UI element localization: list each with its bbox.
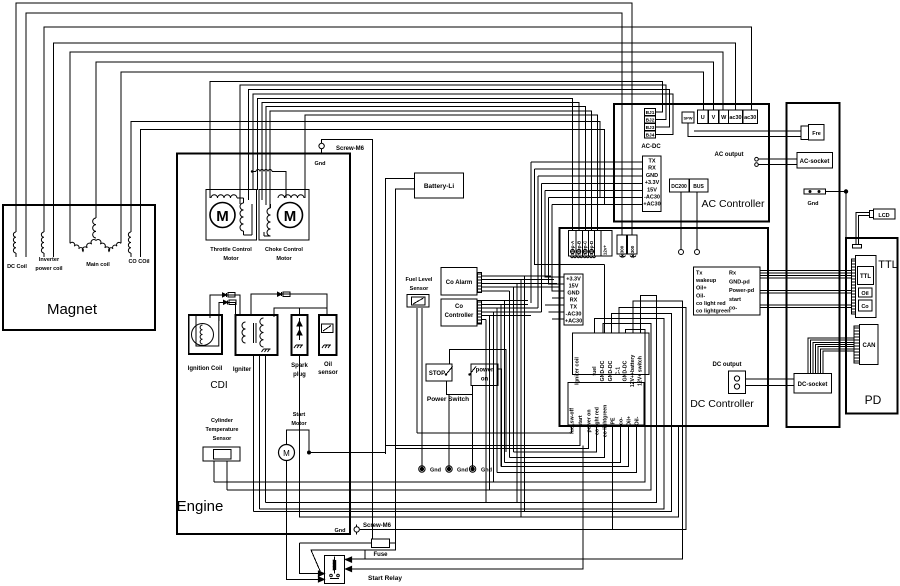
svg-text:GND-DC: GND-DC	[600, 360, 606, 381]
svg-text:Controller: Controller	[445, 313, 474, 319]
svg-text:co-: co-	[729, 306, 737, 312]
svg-text:TTL: TTL	[860, 274, 871, 280]
svg-text:DC200: DC200	[671, 184, 687, 190]
svg-text:Tx: Tx	[696, 271, 703, 277]
svg-text:co lightgreen: co lightgreen	[603, 405, 609, 438]
svg-text:Power Switch: Power Switch	[427, 396, 469, 403]
svg-text:start: start	[578, 415, 584, 427]
svg-text:Rx: Rx	[729, 271, 737, 277]
svg-text:+AC30: +AC30	[643, 202, 660, 208]
svg-text:DC Coil: DC Coil	[7, 264, 27, 270]
svg-text:12V+ switch: 12V+ switch	[638, 356, 644, 386]
svg-text:plug: plug	[293, 372, 306, 378]
svg-text:M: M	[283, 449, 290, 458]
svg-text:power coil: power coil	[35, 266, 63, 272]
svg-text:15V: 15V	[647, 187, 657, 193]
svg-text:Gnd: Gnd	[315, 161, 326, 167]
svg-text:BJ1: BJ1	[646, 110, 655, 116]
svg-text:Choke Control: Choke Control	[265, 247, 303, 253]
svg-text:Gnd: Gnd	[808, 201, 819, 207]
svg-text:AC-socket: AC-socket	[800, 159, 830, 165]
svg-text:Sensor: Sensor	[213, 436, 233, 442]
svg-text:start: start	[729, 297, 741, 303]
svg-text:W: W	[721, 115, 727, 121]
svg-text:Oil+: Oil+	[627, 416, 633, 426]
svg-text:wakeup: wakeup	[695, 278, 717, 284]
svg-text:Screw-M6: Screw-M6	[336, 146, 365, 152]
svg-text:+3.3V: +3.3V	[566, 277, 581, 283]
svg-text:V: V	[712, 115, 716, 121]
svg-text:-AC30: -AC30	[566, 312, 582, 318]
svg-text:BUS: BUS	[693, 184, 704, 190]
svg-text:co lightgreen: co lightgreen	[696, 309, 731, 315]
svg-text:on: on	[481, 377, 489, 383]
svg-text:Gnd: Gnd	[430, 468, 441, 474]
svg-text:Screw-M6: Screw-M6	[363, 523, 392, 529]
svg-text:Gnd: Gnd	[335, 528, 346, 534]
svg-text:Gnd: Gnd	[457, 468, 468, 474]
svg-text:TTL: TTL	[878, 259, 898, 271]
svg-text:Motor: Motor	[276, 256, 292, 262]
svg-text:Fre: Fre	[812, 131, 821, 137]
svg-text:Temperature: Temperature	[206, 427, 239, 433]
svg-text:Motor: Motor	[223, 256, 239, 262]
svg-text:fuel: fuel	[592, 366, 598, 376]
svg-text:U: U	[701, 115, 705, 121]
svg-text:Throttle Control: Throttle Control	[210, 247, 252, 253]
svg-text:GND-DC: GND-DC	[623, 360, 629, 381]
svg-text:Inverter: Inverter	[39, 257, 60, 263]
svg-text:Co: Co	[455, 304, 463, 310]
svg-text:LCD: LCD	[878, 213, 889, 219]
svg-text:PD: PD	[865, 393, 882, 407]
svg-text:power: power	[476, 368, 494, 374]
svg-text:ac300: ac300	[630, 245, 635, 258]
svg-text:ac300: ac300	[620, 245, 625, 258]
svg-text:-AC30: -AC30	[644, 195, 660, 201]
svg-text:Oil: Oil	[324, 362, 332, 368]
svg-text:BJ4: BJ4	[646, 133, 655, 139]
svg-text:AC Controller: AC Controller	[701, 198, 765, 210]
svg-text:Oil-: Oil-	[696, 293, 705, 299]
svg-text:C-1: C-1	[616, 367, 622, 375]
svg-text:co light red: co light red	[595, 407, 601, 435]
svg-text:Start: Start	[293, 412, 306, 418]
svg-text:GND-pd: GND-pd	[729, 279, 750, 285]
svg-text:ac30: ac30	[729, 115, 741, 121]
svg-text:CO COil: CO COil	[128, 259, 150, 265]
svg-text:TX: TX	[648, 159, 655, 165]
svg-text:Start Relay: Start Relay	[368, 575, 402, 582]
svg-text:Fuse: Fuse	[373, 552, 388, 558]
svg-text:Oil-: Oil-	[635, 416, 641, 425]
svg-text:Fuel Level: Fuel Level	[406, 277, 433, 283]
svg-text:RX: RX	[648, 166, 656, 172]
svg-text:BJ3: BJ3	[646, 125, 655, 131]
svg-text:AC-DC: AC-DC	[641, 144, 661, 150]
svg-text:Gnd: Gnd	[481, 468, 492, 474]
svg-text:DC Controller: DC Controller	[690, 398, 754, 410]
svg-text:Cylinder: Cylinder	[211, 418, 234, 424]
svg-text:GND-DC: GND-DC	[608, 360, 614, 381]
svg-text:Sensor: Sensor	[410, 286, 430, 292]
svg-text:sensor: sensor	[318, 370, 338, 376]
svg-text:power on: power on	[587, 409, 593, 432]
svg-text:Oil+: Oil+	[696, 286, 707, 292]
svg-text:RX: RX	[570, 298, 578, 304]
svg-text:+3.3V: +3.3V	[645, 180, 660, 186]
svg-text:co light red: co light red	[696, 301, 726, 307]
svg-text:AC output: AC output	[715, 152, 744, 158]
svg-text:Motor: Motor	[291, 421, 307, 427]
svg-text:Power-pd: Power-pd	[729, 288, 754, 294]
svg-text:M: M	[216, 208, 229, 225]
svg-text:TX: TX	[570, 305, 577, 311]
svg-text:Ignition Coil: Ignition Coil	[188, 366, 223, 372]
svg-text:SPW: SPW	[683, 116, 692, 121]
svg-text:GND: GND	[567, 291, 579, 297]
svg-text:Oil: Oil	[861, 291, 869, 297]
svg-text:15V: 15V	[569, 284, 579, 290]
svg-text:+AC30: +AC30	[565, 319, 582, 325]
svg-text:Main coil: Main coil	[86, 262, 110, 268]
svg-text:fuel,sw-off: fuel,sw-off	[570, 408, 576, 434]
svg-text:Magnet: Magnet	[47, 301, 98, 318]
svg-text:STOP: STOP	[429, 371, 445, 377]
svg-text:12v+: 12v+	[603, 245, 608, 256]
svg-text:M: M	[284, 208, 297, 225]
svg-text:Co Alarm: Co Alarm	[446, 280, 472, 286]
svg-text:Igniter coil: Igniter coil	[575, 357, 581, 385]
svg-text:Engine: Engine	[177, 498, 224, 515]
svg-text:Co: Co	[861, 304, 869, 310]
svg-text:GND: GND	[646, 173, 658, 179]
svg-text:Spark: Spark	[291, 363, 308, 369]
svg-text:DC output: DC output	[713, 362, 742, 368]
svg-text:ac30: ac30	[744, 115, 756, 121]
svg-text:co-: co-	[619, 417, 625, 425]
svg-text:CAN: CAN	[863, 343, 876, 349]
svg-text:Igniter: Igniter	[233, 367, 252, 373]
svg-text:CDI: CDI	[210, 380, 227, 391]
svg-text:BJ2: BJ2	[646, 118, 655, 124]
svg-text:Battery-Li: Battery-Li	[424, 183, 455, 190]
svg-text:PE: PE	[611, 417, 617, 424]
svg-text:DC-socket: DC-socket	[798, 382, 828, 388]
